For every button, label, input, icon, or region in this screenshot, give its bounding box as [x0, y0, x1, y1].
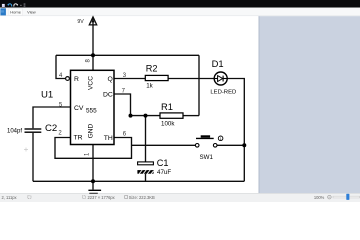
svg-text:R2: R2 [146, 63, 158, 73]
wire GND pin1 [92, 145, 94, 190]
canvas [0, 16, 259, 193]
wire 9V stem [92, 19, 94, 71]
svg-text:47uF: 47uF [157, 169, 171, 176]
File tab [0, 8, 6, 15]
node DC junction [129, 114, 133, 118]
ground [88, 190, 101, 191]
IC U1 555 timer body [66, 70, 114, 144]
svg-text:9V: 9V [77, 19, 84, 25]
svg-text:C1: C1 [157, 158, 169, 168]
wire R1 right [183, 115, 199, 117]
wire top rail [56, 54, 199, 56]
ribbon tab row [0, 8, 360, 16]
node GND junction [91, 179, 95, 183]
wire DC pin7 [114, 94, 131, 116]
wire left drop to pin4 [56, 55, 66, 78]
grid origin cross [24, 148, 28, 152]
node 9V junction [91, 53, 95, 57]
right panel [259, 16, 360, 193]
svg-text:100%: 100% [314, 195, 325, 200]
wire R1 row [131, 115, 161, 117]
wire Q to R2 [114, 78, 145, 80]
switch SW1 [195, 135, 217, 161]
svg-text:U1: U1 [41, 90, 53, 101]
wire right drop to R1 [198, 55, 200, 115]
wire SW1 right [217, 144, 244, 146]
svg-text:Q: Q [108, 76, 113, 83]
svg-text:1k: 1k [146, 83, 153, 90]
svg-text:TR: TR [74, 135, 83, 142]
wire bottom rail [33, 180, 244, 182]
svg-text:1: 1 [220, 137, 222, 141]
svg-text:2, 111px: 2, 111px [2, 195, 17, 200]
capacitor C1 [137, 158, 171, 176]
wire C2 lower [32, 133, 34, 181]
node C1 junction [144, 114, 148, 118]
svg-text:View: View [27, 10, 36, 15]
power 9V arrow [89, 17, 96, 25]
svg-text:R: R [74, 76, 79, 83]
ground second bar clipped by status bar [89, 193, 98, 194]
Home tab [9, 8, 23, 15]
save icon [2, 4, 5, 7]
wire SW1 left [132, 144, 196, 146]
undo icon [8, 4, 12, 7]
wire TR loop [55, 138, 132, 159]
svg-text:2237 × 1776px: 2237 × 1776px [88, 195, 115, 200]
svg-text:VCC: VCC [88, 76, 95, 90]
wire CV to C2 [33, 107, 71, 128]
svg-text:SW1: SW1 [200, 154, 214, 161]
svg-text:555: 555 [86, 108, 97, 115]
wire R2 to D1 [168, 78, 214, 80]
resistor R2 [145, 63, 168, 89]
svg-text:CV: CV [74, 105, 84, 112]
diode D1 LED [210, 58, 236, 96]
capacitor C2 [7, 123, 57, 134]
wire C1 branch [145, 116, 147, 162]
svg-text:Home: Home [10, 10, 21, 15]
status bar [0, 193, 360, 202]
svg-text:C2: C2 [45, 123, 57, 134]
svg-text:GND: GND [88, 123, 95, 138]
svg-text:Size: 222.3KB: Size: 222.3KB [129, 195, 155, 200]
redo icon [14, 4, 18, 7]
svg-text:LED-RED: LED-RED [210, 89, 236, 95]
svg-text:100k: 100k [161, 121, 175, 128]
QAT separator [20, 5, 21, 6]
pin marker 1 on SW1 [218, 136, 223, 141]
svg-text:R1: R1 [161, 101, 173, 112]
svg-text:TH: TH [104, 135, 113, 142]
wire D1 cathode [227, 79, 244, 182]
resistor R1 [160, 101, 183, 127]
window title bar [0, 0, 360, 8]
svg-text:104pf: 104pf [7, 128, 22, 134]
wire C1 lower [145, 174, 147, 182]
QAT dropdown [24, 3, 26, 6]
svg-text:DC: DC [103, 92, 113, 99]
node SW1 junction [242, 143, 246, 147]
svg-text:D1: D1 [212, 58, 224, 69]
